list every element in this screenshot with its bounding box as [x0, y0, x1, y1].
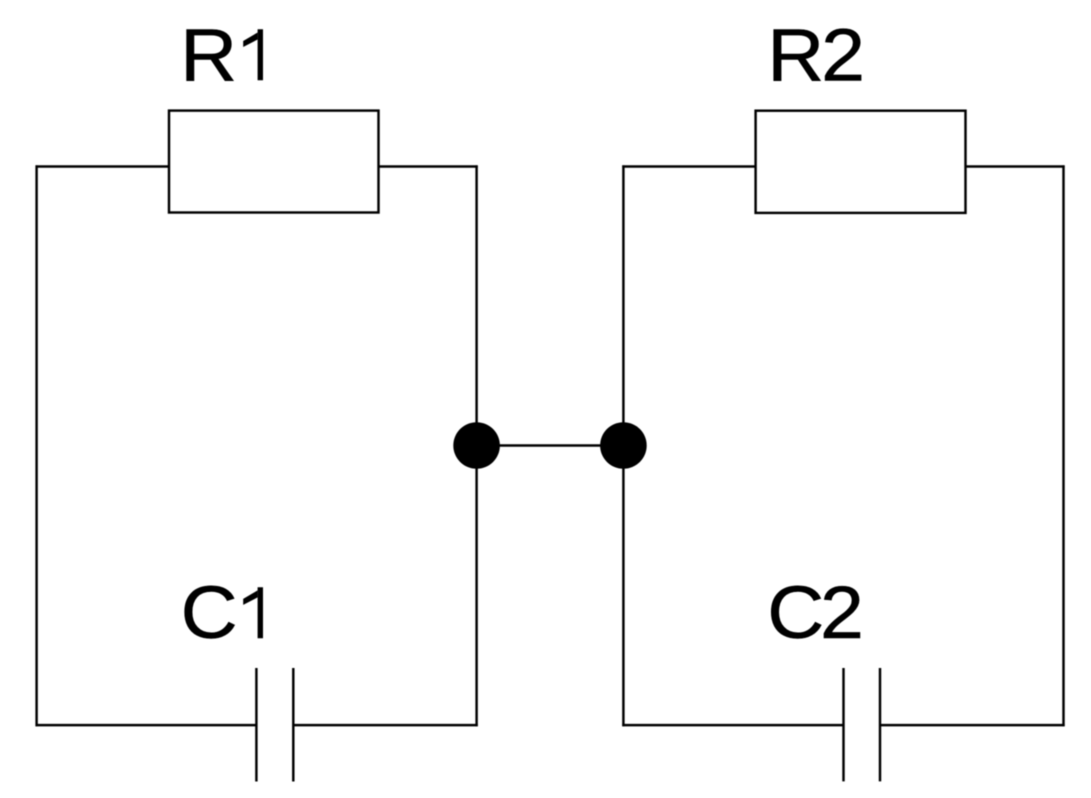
- svg-text:2: 2: [820, 572, 864, 654]
- wire right-loop top horizontal (left of R2): [622, 165, 755, 167]
- node B junction dot: [600, 422, 647, 469]
- capacitor C2 label: [767, 572, 864, 654]
- capacitor C2 left plate: [842, 668, 844, 781]
- wire between node A and node B: [477, 444, 624, 446]
- wire left-loop bottom horizontal (left of C1): [36, 724, 257, 726]
- node A junction dot: [453, 422, 500, 469]
- svg-text:C: C: [181, 572, 238, 654]
- resistor R2 body: [756, 111, 966, 213]
- wire left-loop right vertical lower (node A to bottom corner): [475, 446, 477, 727]
- wire left-loop left vertical: [35, 165, 37, 726]
- wire right-loop bottom horizontal (left of C2): [622, 724, 843, 726]
- wire left-loop bottom horizontal (right of C1): [293, 724, 477, 726]
- wire right-loop left vertical upper (top corner to node B): [622, 165, 624, 445]
- resistor R2 label: [767, 14, 865, 96]
- svg-text:2: 2: [821, 14, 865, 96]
- svg-text:R: R: [767, 14, 824, 96]
- capacitor C1 left plate: [255, 668, 257, 782]
- wire left-loop top horizontal (left of R1): [36, 165, 170, 167]
- wire right-loop left vertical lower (node B to bottom corner): [622, 446, 624, 727]
- capacitor C1 right plate: [292, 668, 294, 782]
- wire left-loop top horizontal (right of R1): [379, 165, 478, 167]
- resistor R1 label: [180, 14, 263, 96]
- resistor R1 body: [169, 111, 379, 213]
- svg-text:R: R: [180, 14, 237, 96]
- wire right-loop top horizontal (right of R2): [966, 165, 1065, 167]
- capacitor C2 right plate: [879, 668, 881, 781]
- wire right-loop right vertical: [1062, 165, 1064, 726]
- wire right-loop bottom horizontal (right of C2): [880, 724, 1065, 726]
- wire left-loop right vertical upper (top corner to node A): [475, 165, 477, 445]
- svg-text:C: C: [767, 572, 824, 654]
- capacitor C1 label: [181, 572, 263, 654]
